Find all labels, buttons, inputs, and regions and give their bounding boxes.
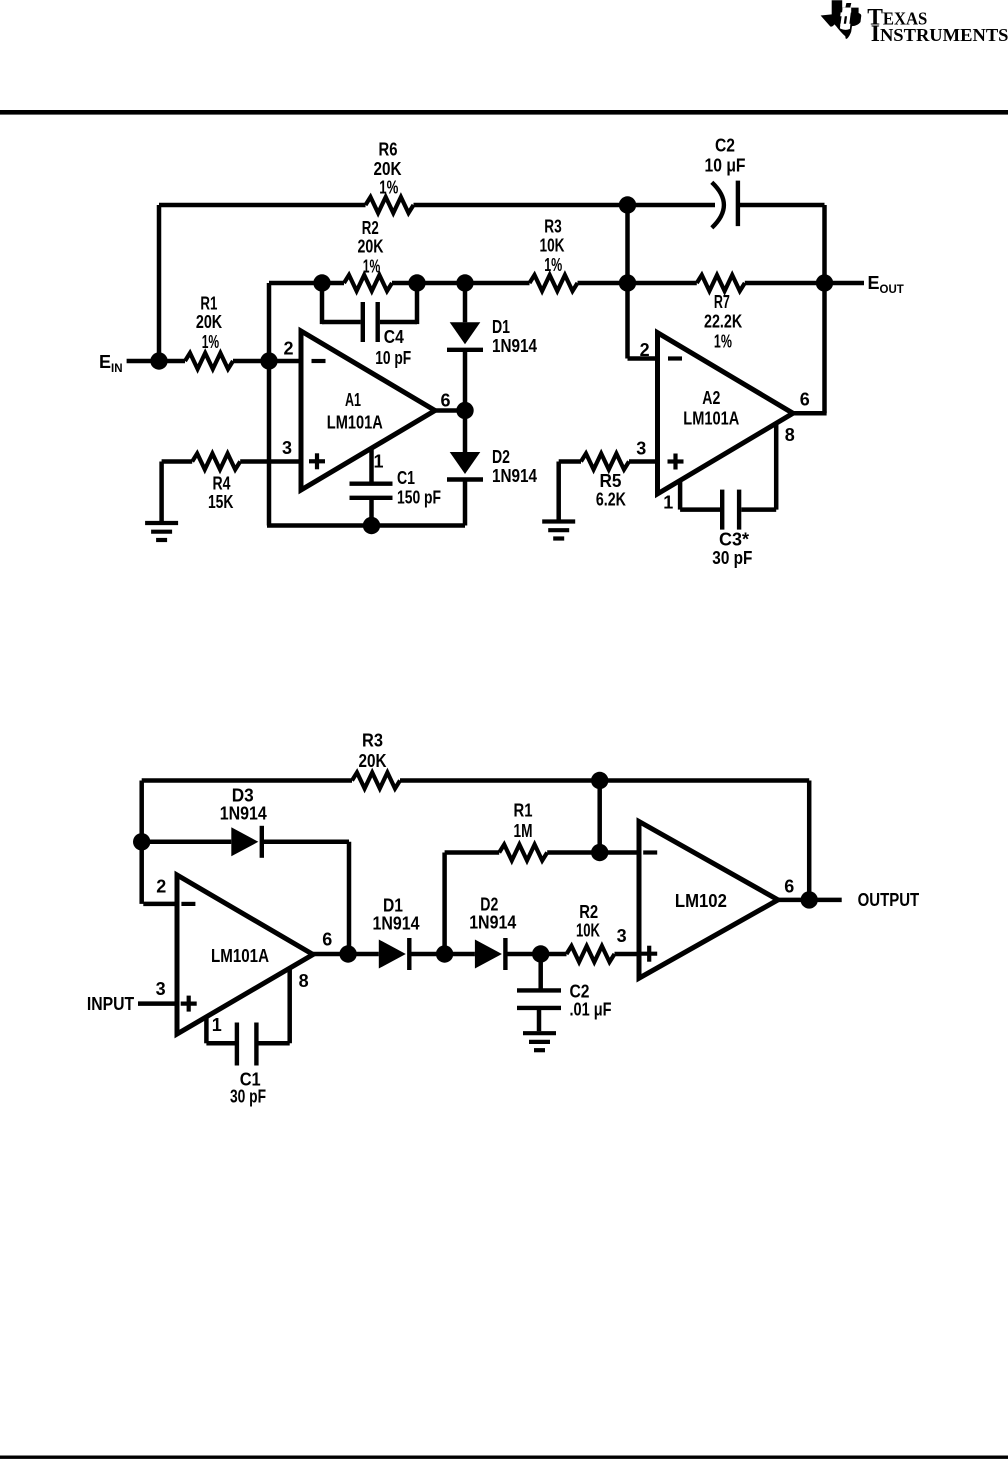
svg-text:3: 3 xyxy=(282,438,292,458)
svg-text:R6: R6 xyxy=(379,140,398,160)
svg-text:R1: R1 xyxy=(514,801,533,821)
svg-text:3: 3 xyxy=(636,439,646,459)
svg-text:2: 2 xyxy=(640,340,650,360)
svg-text:20K: 20K xyxy=(374,159,402,179)
svg-text:1N914: 1N914 xyxy=(220,804,267,824)
svg-text:OUTPUT: OUTPUT xyxy=(858,890,920,910)
svg-text:1%: 1% xyxy=(544,255,562,275)
svg-text:1N914: 1N914 xyxy=(373,914,420,934)
svg-text:R1: R1 xyxy=(200,294,217,314)
svg-text:20K: 20K xyxy=(359,751,387,771)
svg-text:R5: R5 xyxy=(600,471,622,491)
svg-text:R4: R4 xyxy=(213,474,231,494)
svg-text:1: 1 xyxy=(212,1015,222,1035)
svg-text:10K: 10K xyxy=(576,921,600,941)
svg-text:10 pF: 10 pF xyxy=(375,348,411,368)
svg-text:INSTRUMENTS: INSTRUMENTS xyxy=(871,21,1008,47)
svg-text:1M: 1M xyxy=(514,821,533,841)
svg-text:20K: 20K xyxy=(358,237,384,257)
svg-text:10K: 10K xyxy=(540,236,565,256)
svg-text:INPUT: INPUT xyxy=(87,994,134,1014)
svg-text:A1: A1 xyxy=(345,390,361,410)
svg-text:2: 2 xyxy=(156,877,166,897)
svg-text:R2: R2 xyxy=(362,218,379,238)
svg-text:8: 8 xyxy=(299,971,309,991)
svg-text:10 μF: 10 μF xyxy=(705,156,746,176)
svg-text:3: 3 xyxy=(617,926,627,946)
svg-text:1%: 1% xyxy=(379,177,398,197)
svg-text:LM101A: LM101A xyxy=(683,409,739,429)
svg-text:C4: C4 xyxy=(384,327,404,347)
svg-text:LM101A: LM101A xyxy=(211,946,269,966)
svg-text:C1: C1 xyxy=(397,468,415,488)
svg-text:6: 6 xyxy=(800,390,810,410)
svg-text:D2: D2 xyxy=(492,447,510,467)
svg-text:6: 6 xyxy=(440,390,450,410)
svg-text:1%: 1% xyxy=(714,331,732,351)
svg-text:150 pF: 150 pF xyxy=(397,488,441,508)
svg-text:D2: D2 xyxy=(480,895,498,915)
svg-text:D3: D3 xyxy=(232,786,254,806)
svg-text:C2: C2 xyxy=(570,982,590,1002)
svg-text:15K: 15K xyxy=(208,492,234,512)
svg-text:1N914: 1N914 xyxy=(492,336,537,356)
svg-text:LM102: LM102 xyxy=(675,891,727,911)
svg-text:A2: A2 xyxy=(702,388,720,408)
svg-text:C3*: C3* xyxy=(719,530,749,550)
svg-text:30 pF: 30 pF xyxy=(230,1087,266,1107)
svg-text:1N914: 1N914 xyxy=(492,466,537,486)
svg-text:2: 2 xyxy=(283,339,293,359)
svg-text:8: 8 xyxy=(785,425,795,445)
svg-text:.01 μF: .01 μF xyxy=(570,1000,612,1020)
svg-text:1N914: 1N914 xyxy=(469,913,516,933)
svg-text:R2: R2 xyxy=(579,902,598,922)
svg-text:20K: 20K xyxy=(196,312,222,332)
svg-text:1: 1 xyxy=(663,493,673,513)
svg-text:R3: R3 xyxy=(362,731,383,751)
svg-text:D1: D1 xyxy=(492,317,510,337)
svg-text:C2: C2 xyxy=(715,135,735,155)
svg-text:R3: R3 xyxy=(544,217,562,237)
svg-text:6: 6 xyxy=(322,929,332,949)
svg-text:1%: 1% xyxy=(202,332,219,352)
svg-text:3: 3 xyxy=(156,979,166,999)
svg-text:6: 6 xyxy=(784,876,794,896)
svg-text:22.2K: 22.2K xyxy=(704,312,742,332)
svg-text:1%: 1% xyxy=(363,256,381,276)
svg-text:1: 1 xyxy=(373,452,383,472)
svg-text:R7: R7 xyxy=(714,292,730,312)
svg-text:LM101A: LM101A xyxy=(327,412,383,432)
svg-text:30 pF: 30 pF xyxy=(712,548,752,568)
svg-text:6.2K: 6.2K xyxy=(596,490,626,510)
svg-text:D1: D1 xyxy=(383,896,403,916)
